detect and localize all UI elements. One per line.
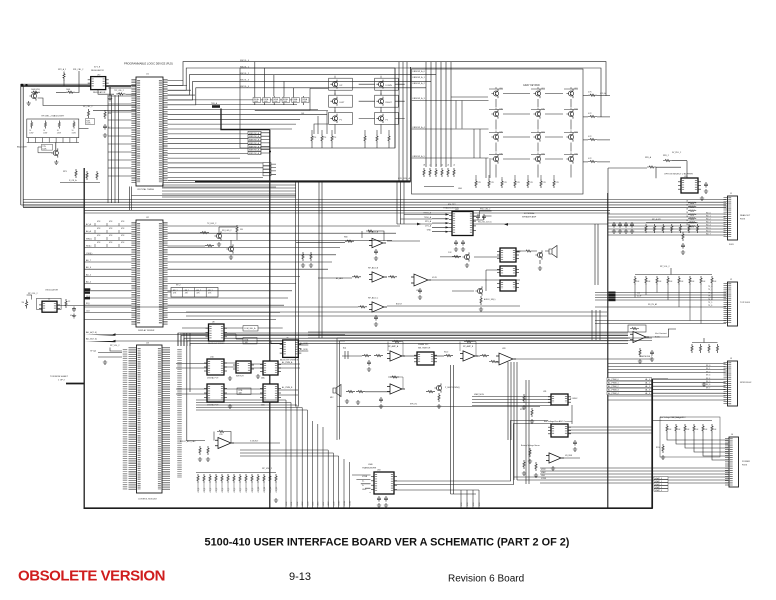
svg-text:SF_0: SF_0 (706, 365, 710, 367)
transistor Q43 keypad switch LEFT in cell box (329, 95, 353, 107)
wire - USB right outputs (394, 421, 548, 482)
svg-text:SF_5: SF_5 (706, 381, 710, 383)
svg-text:100K: 100K (293, 101, 298, 103)
svg-text:RD(L): RD(L) (86, 246, 92, 248)
wire - J4 rescomb top bus (662, 420, 712, 422)
svg-text:K12: K12 (575, 109, 578, 111)
svg-text:Y1: Y1 (48, 299, 50, 301)
wire - trackball net vertical collector (269, 130, 271, 508)
svg-text:RS_232_2(7..0): RS_232_2(7..0) (478, 222, 492, 224)
transistor Q43 body (330, 97, 337, 106)
transistor Q54 gray keypad switch (533, 109, 540, 118)
svg-text:AL_PWM_3: AL_PWM_3 (608, 389, 620, 392)
resistor R140 TX base (200, 232, 209, 234)
resistor R36 pull-up row left of PLD bottom (75, 169, 77, 178)
wire - inter-keypad vertical bundle (399, 62, 407, 181)
svg-text:0.1uF: 0.1uF (637, 296, 641, 298)
transistor Q58 gray keypad switch (566, 132, 573, 141)
resistor R5A keypad row exit pull-up (588, 160, 597, 162)
svg-text:RP_A 47K: RP_A 47K (652, 218, 661, 221)
svg-text:LCD5: LCD5 (313, 502, 315, 506)
svg-text:OSCILLATOR: OSCILLATOR (45, 289, 58, 292)
svg-text:SF_4: SF_4 (706, 378, 710, 380)
svg-text:RD_0: RD_0 (706, 213, 711, 215)
svg-text:U34: U34 (377, 470, 380, 472)
svg-text:GND: GND (541, 475, 546, 477)
svg-text:SPK_RC: SPK_RC (410, 404, 418, 406)
wire - U29 in/out (403, 355, 417, 357)
IC U25 audio decoder (497, 280, 519, 291)
wire - thick trackball net path (221, 109, 270, 130)
svg-text:A6_A: A6_A (86, 230, 92, 233)
resistor R70 input divider (199, 446, 201, 455)
svg-text:RP3: RP3 (63, 171, 67, 173)
svg-text:LCD_A: LCD_A (600, 92, 606, 95)
svg-text:K11: K11 (542, 109, 545, 111)
wire - bus runs into J2 area (595, 293, 726, 301)
wire - pull-up row wire (60, 182, 100, 184)
resistor R61 oscillator bias 1M (26, 300, 28, 309)
node - Q31 base label box (42, 144, 53, 150)
resistor R32 100K(1/16) lower-left (31, 91, 40, 93)
resistor R95 option pull-up (647, 166, 656, 168)
wire - RP101 staggered drops to bundle (635, 285, 712, 324)
svg-text:Bat Voltage/Gas ADC Converter: Bat Voltage/Gas ADC Converter (544, 420, 573, 423)
IC U13 DAC A (260, 361, 281, 375)
wire - mux input lines (472, 397, 551, 406)
node - U3 right pin labels column (177, 349, 182, 478)
svg-text:AL_PWM_B: AL_PWM_B (282, 386, 293, 389)
node - TKB thick net label blob (212, 105, 220, 108)
svg-text:3V_PLD_2: 3V_PLD_2 (672, 152, 681, 154)
svg-text:CLK: CLK (86, 310, 91, 312)
svg-text:100K(1/16): 100K(1/16) (31, 89, 40, 91)
resistor R128 Q70 emitter (438, 393, 440, 402)
wire - mux to ADC link (571, 405, 573, 424)
svg-text:U9: U9 (286, 338, 288, 340)
resistor R120 input series (362, 355, 371, 357)
resistor R130 RTC divider (523, 394, 525, 403)
IC U14 DAC B (260, 384, 281, 402)
wire - backlight bottom bus drop (55, 143, 57, 151)
svg-text:RP_CBL_2: RP_CBL_2 (83, 106, 92, 108)
svg-text:TO/FROM SHEET: TO/FROM SHEET (50, 376, 69, 378)
svg-text:LCD9: LCD9 (333, 502, 335, 506)
svg-text:RP_VDL_2: RP_VDL_2 (262, 468, 273, 470)
svg-text:KBROW_A_5: KBROW_A_5 (413, 155, 426, 158)
svg-text:K00: K00 (500, 88, 503, 90)
resistor R124 series out (480, 355, 489, 357)
svg-text:TRANSCEIVER: TRANSCEIVER (362, 467, 377, 470)
svg-text:VB_SNS: VB_SNS (565, 455, 573, 457)
wire - mic feedback loop (388, 377, 403, 389)
resistor pack RP42 keypad bottom resistors right (364, 134, 390, 143)
resistor pack RP81 SIP below U2 (171, 288, 218, 298)
resistor pack RP30 BACKLIGHT block (27, 119, 79, 143)
resistor R92 Q62 base (452, 256, 461, 258)
transistor Q41 keypad switch UP in cell box (329, 78, 353, 90)
svg-text:VUSB: VUSB (541, 478, 547, 480)
svg-text:1/4W: 1/4W (72, 132, 76, 134)
svg-text:K21: K21 (542, 132, 545, 134)
svg-text:KBROW_A_2: KBROW_A_2 (413, 82, 426, 85)
svg-text:SF_2: SF_2 (706, 371, 710, 373)
node - J3 boxed net label stack (607, 378, 652, 381)
wire - Q31 base wire (38, 147, 53, 153)
svg-text:EXTERNAL: EXTERNAL (524, 212, 535, 215)
svg-text:RD_7: RD_7 (706, 234, 711, 236)
transistor Q57 gray keypad switch (533, 132, 540, 141)
svg-text:RD_3: RD_3 (706, 222, 711, 224)
svg-text:AD_3: AD_3 (86, 288, 92, 291)
svg-text:C2: C2 (68, 301, 70, 303)
resistor pack RP101 above J2 (634, 276, 713, 285)
svg-text:RX_LED_2: RX_LED_2 (222, 230, 231, 232)
svg-text:KBROW_A_3: KBROW_A_3 (249, 142, 262, 145)
svg-text:KBROW_A_2: KBROW_A_2 (249, 139, 262, 142)
svg-text:WR(L): WR(L) (86, 238, 92, 240)
resistor R58 keypad row exit pull-up (588, 115, 597, 117)
wire - PLD bottom long runs (162, 186, 276, 188)
resistor R72 feedback (217, 430, 226, 432)
op-amp U28D mic buffer (387, 384, 405, 394)
wire - second group elbow (394, 489, 479, 491)
svg-text:LCD7: LCD7 (323, 502, 325, 506)
svg-text:TKB_A: TKB_A (211, 102, 218, 105)
svg-text:RS-232: RS-232 (448, 204, 456, 206)
IC U11 digital pot B (204, 384, 227, 402)
svg-text:4:1 MUX: 4:1 MUX (570, 398, 578, 400)
svg-text:AD_B(7..0): AD_B(7..0) (86, 338, 97, 341)
wire - tie-down elbow horizontals (196, 400, 339, 456)
resistor R83 A2 out series (388, 276, 397, 278)
svg-text:TF_6: TF_6 (708, 305, 712, 307)
op-amp U33 battery voltage sense (546, 453, 564, 463)
transistor Q50 gray keypad switch (491, 89, 498, 98)
wire - audio select lines (440, 252, 520, 291)
IC U10 digital pot A (204, 359, 227, 375)
node - collector junction dot (269, 151, 271, 153)
transistor Q80 body (214, 231, 221, 240)
svg-text:K10: K10 (500, 109, 503, 111)
svg-text:TF_2: TF_2 (708, 292, 712, 294)
oscillator Y1 (39, 301, 60, 312)
resistor R33b 100K (66, 91, 75, 93)
wire - J1 lower feeds (608, 214, 726, 235)
wire - main mid horizontal bus bundle to readout flex (23, 200, 726, 208)
svg-text:RD_1: RD_1 (706, 216, 711, 218)
resistor pack RP51 gray keypad bottom resistors (475, 179, 555, 188)
wire - A4 output (387, 305, 520, 307)
wire - speaker wiring (516, 251, 549, 264)
node - U3 left pin labels column (123, 349, 128, 490)
svg-text:AD_A(7..0): AD_A(7..0) (86, 331, 97, 334)
wire - schematic bottom frame (84, 507, 653, 509)
resistor R141 RX base (205, 245, 214, 247)
capacitor C95 option select (704, 182, 708, 188)
wire - buffer connections (608, 329, 676, 338)
resistor R112 feedback box (628, 325, 646, 332)
resistor pack RP102 above J3 (691, 344, 719, 353)
transistor Q56 gray keypad switch (491, 132, 498, 141)
capacitor C83 under A4 (374, 315, 378, 321)
wire - thick bus corner drop (410, 67, 412, 182)
svg-text:VLCD: VLCD (432, 277, 438, 279)
svg-text:AD_5: AD_5 (86, 273, 92, 276)
svg-text:V_BCKLT: V_BCKLT (250, 441, 259, 443)
svg-text:RP_BKL_2 BACKLIGHT: RP_BKL_2 BACKLIGHT (42, 115, 65, 118)
resistor R132 sense divider B (523, 460, 525, 469)
wire - A1 out (387, 240, 420, 242)
svg-text:LCD0: LCD0 (286, 502, 288, 506)
svg-text:RD_5: RD_5 (706, 228, 711, 230)
wire - boundary pair x526 (526, 380, 529, 484)
transistor Q53 gray keypad switch (491, 109, 498, 118)
wire - U2 right fan-out (168, 226, 401, 320)
ground - mic grounds (345, 399, 349, 403)
svg-text:K20: K20 (500, 132, 503, 134)
wire - thick LCD_VDL bus (195, 181, 411, 183)
regulator U30 body (88, 77, 109, 90)
IC U23 speaker amp (497, 248, 519, 262)
wire - RP103 drops to J4 (667, 433, 728, 460)
wire - backlight feed from box (79, 127, 89, 129)
svg-text:KBROW_A_0: KBROW_A_0 (413, 70, 426, 73)
wire - opamp C1 input (186, 440, 205, 442)
svg-text:LEFT: LEFT (340, 102, 346, 104)
svg-text:RD_4: RD_4 (706, 225, 711, 227)
wire - top-left double power rail horizontal (21, 83, 91, 85)
wire - gray keypad column bundle (426, 62, 451, 167)
svg-text:C5: C5 (454, 164, 456, 166)
svg-text:RP_2: RP_2 (176, 285, 181, 287)
wire - RS232 feeder risers (397, 182, 404, 224)
wire - KBCOL staircase lines to keypads (168, 62, 447, 105)
svg-text:AL_COM: AL_COM (300, 342, 308, 345)
wire - main left vertical bus (83, 168, 85, 508)
wire - option select wiring (608, 161, 687, 193)
wire - bias tie (27, 295, 32, 300)
wire - A3 output long (429, 279, 521, 281)
ground - U3 left ground (103, 360, 107, 364)
resistor R127 Q70 base (426, 391, 435, 393)
wire - J3 feeds (608, 364, 726, 401)
resistor R121 feedback (392, 340, 401, 342)
svg-text:FLEX: FLEX (729, 244, 734, 246)
svg-text:AD_7: AD_7 (86, 259, 92, 262)
svg-text:RIGHT: RIGHT (386, 102, 393, 104)
svg-text:REGULATOR: REGULATOR (91, 69, 104, 72)
ground - ladder ground (274, 498, 278, 502)
svg-text:LCD_VDL_A: LCD_VDL_A (398, 177, 411, 180)
svg-text:R_CN_A: R_CN_A (69, 179, 77, 182)
svg-text:TF_1: TF_1 (708, 289, 712, 291)
svg-text:VBAT_MON: VBAT_MON (474, 393, 484, 396)
node - KBROW_A boxed net labels stack (248, 131, 261, 134)
svg-text:SF_7: SF_7 (706, 387, 710, 389)
transistor Q61 (475, 286, 482, 295)
IC U2 LCD segment driver (134, 220, 166, 327)
node - lower boxed net labels stack (263, 163, 271, 166)
svg-text:PROGRAMMABLE LOGIC DEVICE (PLD: PROGRAMMABLE LOGIC DEVICE (PLD) (124, 62, 173, 66)
transistor Q31 body (51, 148, 58, 157)
wire - RP100 top bus (646, 222, 698, 224)
svg-text:TXD0_A: TXD0_A (424, 216, 432, 219)
node - RS232 line arrowheads (417, 223, 508, 226)
svg-text:BACKLIGHT DRIVER: BACKLIGHT DRIVER (208, 342, 225, 345)
svg-text:SF_3: SF_3 (706, 375, 710, 377)
resistor R142 LED supply (236, 225, 238, 234)
wire - schematic right frame (651, 379, 653, 508)
ground - RP102 ground (702, 382, 706, 386)
wire - nested region boundary verticals (451, 365, 454, 494)
wire - RP_VDL tick (110, 348, 122, 352)
svg-text:C0: C0 (424, 164, 426, 166)
svg-text:OBSOLETE VERSION: OBSOLETE VERSION (18, 568, 165, 585)
svg-text:1/4W: 1/4W (57, 132, 61, 134)
resistor R125 hp input bias (489, 360, 498, 362)
wire - long bus runs to contrast buffer (308, 332, 628, 338)
svg-text:RP_VDL_2: RP_VDL_2 (110, 345, 119, 347)
svg-text:KBCOL_4: KBCOL_4 (240, 86, 250, 88)
transistor Q70 (434, 383, 441, 392)
transistor Q59 gray keypad switch (491, 154, 498, 163)
capacitor C60 oscillator to ground (72, 307, 76, 313)
svg-text:VBAT_4: VBAT_4 (655, 489, 662, 492)
IC U3 LCD module interface (133, 345, 167, 493)
svg-text:1/4W: 1/4W (29, 132, 33, 134)
svg-text:DISPLAY DRIVER: DISPLAY DRIVER (138, 329, 155, 332)
wire - audio bottom run (337, 406, 540, 408)
wire - LED wiring (219, 227, 237, 246)
svg-text:RP6_A: RP6_A (645, 156, 652, 159)
wire - RP40 bottom bus (255, 109, 310, 111)
transistor Q44 keypad switch RIGHT in cell box (375, 95, 399, 107)
svg-text:100K: 100K (254, 101, 259, 103)
svg-text:R110: R110 (656, 447, 660, 449)
wire - KBCOL top lines extension past box2 (441, 62, 606, 117)
resistor R133 sense divider C (535, 462, 537, 471)
IC U32 battery ADC converter (548, 424, 571, 437)
svg-text:RD_6: RD_6 (706, 231, 711, 233)
svg-text:C1: C1 (430, 164, 432, 166)
IC U8 backlight driver A (206, 324, 228, 341)
svg-text:U28: U28 (502, 348, 505, 350)
svg-text:USB: USB (368, 464, 373, 466)
svg-text:RP_VOL_2: RP_VOL_2 (660, 266, 670, 268)
svg-text:RP_AMP_B: RP_AMP_B (463, 345, 474, 348)
svg-text:KBROW_A_1: KBROW_A_1 (413, 76, 426, 79)
wire - RP_CBL run right (93, 109, 136, 111)
svg-text:SPKR FLEX: SPKR FLEX (740, 382, 752, 384)
svg-text:LCD11: LCD11 (344, 501, 346, 506)
op-amp U20C backlight comp (369, 302, 387, 312)
wire - mid drop pair B (319, 182, 322, 339)
wire - mic input line (342, 355, 362, 357)
wire - RP51 tops to transistor columns (476, 175, 554, 179)
transistor Q46 body (376, 114, 383, 123)
transistor Q60 (535, 250, 542, 259)
wire - riser pair below J2 bundle (592, 310, 600, 340)
wire - rail elbow into main left bus (21, 204, 84, 206)
connector J2 top flex (726, 282, 738, 326)
svg-text:P_SHUTDOWN(L): P_SHUTDOWN(L) (445, 387, 460, 389)
capacitor C121 mic (379, 397, 383, 403)
svg-text:RXD0_A: RXD0_A (424, 212, 432, 215)
svg-text:KBCOL_2: KBCOL_2 (240, 73, 250, 75)
svg-text:100K: 100K (273, 101, 278, 103)
IC U29 PHEAT R/C select switch (414, 352, 437, 365)
capacitor group C100 near J1 bundle (612, 222, 616, 228)
resistor R123 feedback B2 (464, 340, 473, 342)
wire - pot cluster links from U3 (176, 364, 207, 395)
svg-text:TX_LED_2: TX_LED_2 (207, 223, 216, 225)
svg-text:AUDIO_SD(L): AUDIO_SD(L) (484, 298, 496, 301)
resistor R84 divider pair (302, 252, 304, 261)
wire - PLD left feeder bundle (108, 95, 119, 203)
svg-text:AD_4: AD_4 (86, 281, 92, 284)
svg-text:COM_SEL_A: COM_SEL_A (244, 327, 256, 330)
capacitor C24 column right (103, 124, 107, 130)
wire - J4 lower feeds (540, 468, 728, 483)
svg-text:EARPHONE_L: EARPHONE_L (640, 355, 652, 358)
transistor Q55 gray keypad switch (566, 109, 573, 118)
transistor Q51 gray keypad switch (533, 89, 540, 98)
wire - regulator right pins down (110, 87, 111, 96)
svg-text:DIGITAL POT: DIGITAL POT (207, 377, 219, 380)
svg-text:GRAY KEYPAD: GRAY KEYPAD (523, 84, 540, 87)
svg-text:C10: C10 (637, 293, 640, 295)
wire - keypad cell column wires (335, 90, 381, 134)
svg-text:AL_PWM_2: AL_PWM_2 (608, 385, 620, 388)
svg-text:AT_ADJ: AT_ADJ (336, 277, 343, 280)
svg-text:CRYSTAL TIMING: CRYSTAL TIMING (137, 188, 155, 191)
wire - box1 bottom resistor drops (312, 130, 389, 148)
transistor Q46 keypad switch P2 in cell box (375, 112, 399, 124)
svg-text:TF_5: TF_5 (708, 302, 712, 304)
op-amp U20B contrast adj B (369, 272, 387, 282)
ground - speaker ground (538, 266, 542, 270)
transistor Q45 body (330, 114, 337, 123)
resistor R57 keypad row exit pull-up (588, 94, 597, 96)
svg-text:Battery Voltage Sense: Battery Voltage Sense (521, 444, 540, 447)
capacitor C80 under A1 (374, 249, 378, 255)
svg-text:IRQ: IRQ (86, 303, 90, 305)
svg-text:READOUT: READOUT (740, 214, 751, 217)
svg-text:K31: K31 (542, 154, 545, 156)
wire - B2 out (476, 355, 481, 357)
svg-text:U31: U31 (543, 391, 546, 393)
wire - long runs above pot cluster (186, 312, 607, 316)
wire - U3 right bundle elbows going right (178, 333, 628, 346)
IC U26 option select buffer (678, 178, 701, 193)
resistor R71 input divider (207, 446, 209, 455)
wire - U2 left pin stubs from bus (85, 226, 132, 320)
resistor R60 C2 15p series (65, 299, 67, 308)
wire - lower label stubs (271, 164, 276, 174)
wire - oscillator feedback loop box (37, 298, 62, 309)
transistor Q45 keypad switch P1 in cell box (329, 112, 353, 124)
wire - ADC output lines (568, 427, 652, 433)
wire - sense output (562, 457, 581, 459)
svg-text:RS_RV_A2: RS_RV_A2 (648, 303, 657, 306)
wire - thick LCD_VDL bus upper line (168, 179, 411, 181)
wire - A2 input (318, 277, 352, 279)
IC U24 speaker amp B (497, 266, 519, 276)
wire - U3 right risers mid (189, 333, 191, 392)
svg-text:R122: R122 (444, 352, 448, 354)
connector J3 speaker flex (726, 361, 738, 406)
